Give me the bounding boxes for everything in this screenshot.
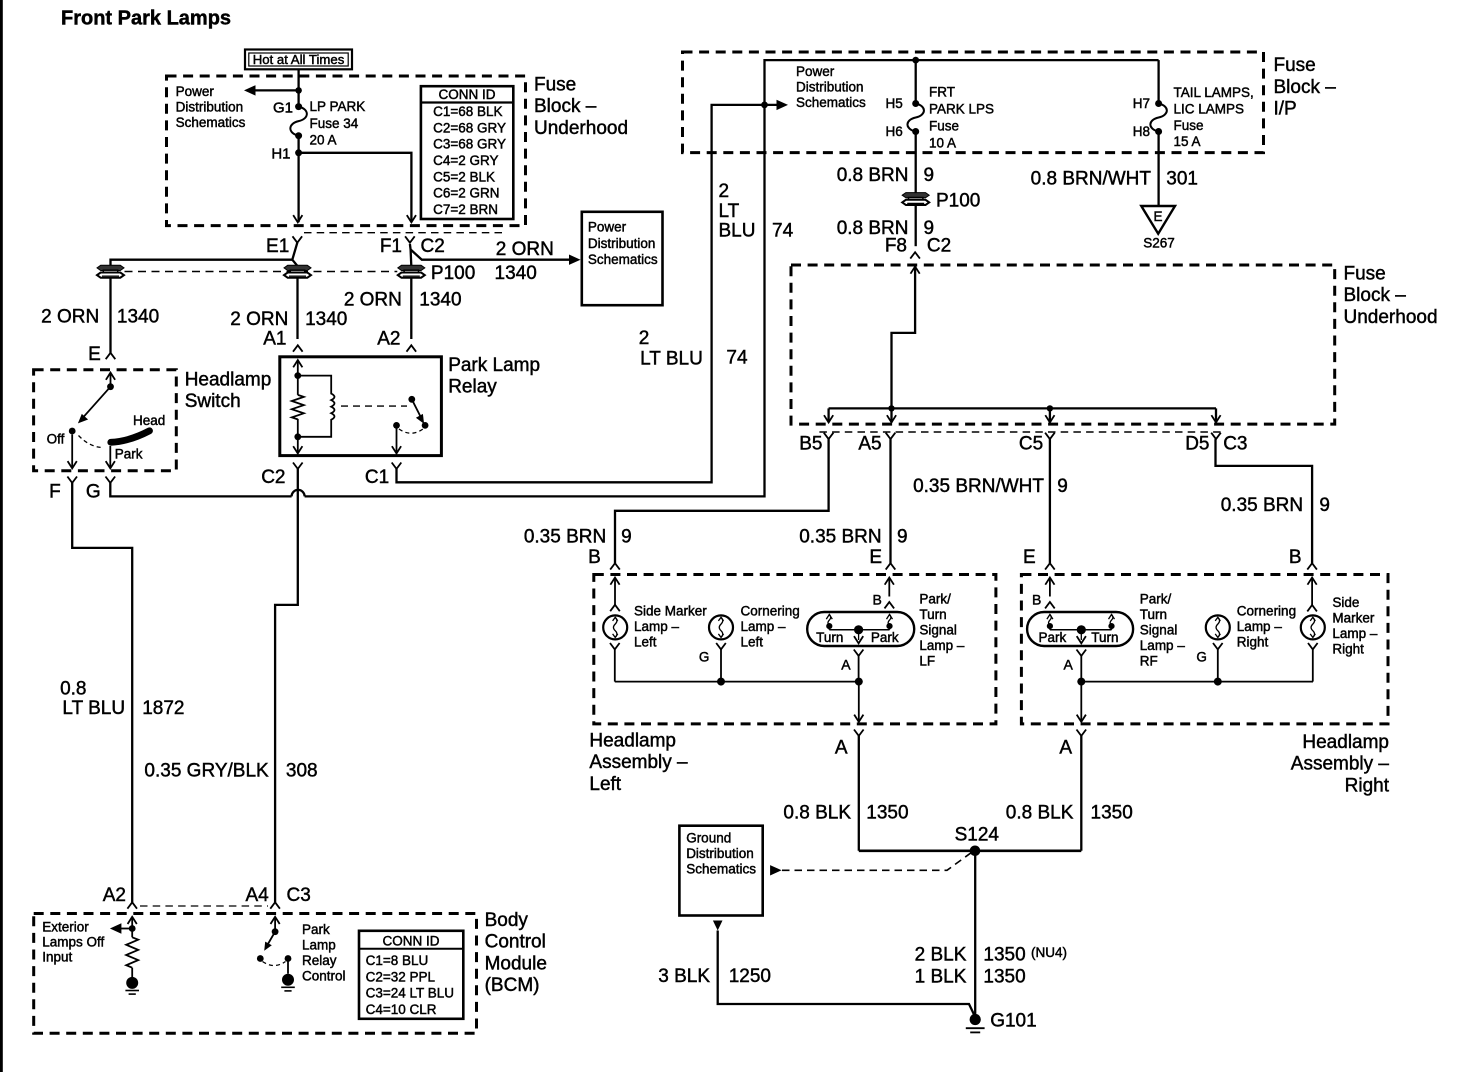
wire B inside to side marker right — [1308, 578, 1317, 606]
wire F8 inside fuse block — [892, 267, 920, 409]
svg-text:1340: 1340 — [305, 309, 347, 330]
svg-text:Park Lamp: Park Lamp — [448, 355, 540, 376]
terminal A4 C3 BCM — [270, 902, 280, 908]
svg-text:B: B — [1032, 592, 1041, 608]
terminal A2 BCM — [127, 902, 137, 908]
svg-text:LF: LF — [919, 653, 935, 668]
park turn signal lamp LF oval — [807, 612, 914, 646]
svg-text:0.35 GRY/BLK: 0.35 GRY/BLK — [144, 760, 269, 781]
svg-text:A: A — [841, 657, 851, 673]
svg-text:I/P: I/P — [1274, 99, 1297, 120]
svg-text:2: 2 — [719, 181, 730, 202]
svg-text:Distribution: Distribution — [796, 80, 864, 95]
svg-text:Turn: Turn — [1091, 630, 1118, 645]
svg-text:2 ORN: 2 ORN — [230, 309, 288, 330]
svg-text:Lamp –: Lamp – — [1237, 619, 1283, 634]
park turn signal lamp RF oval — [1027, 612, 1133, 646]
svg-text:10 A: 10 A — [929, 136, 956, 151]
svg-text:C1: C1 — [365, 467, 389, 488]
svg-text:H5: H5 — [886, 96, 903, 111]
svg-text:RF: RF — [1140, 653, 1158, 668]
svg-text:Signal: Signal — [919, 622, 957, 637]
svg-text:9: 9 — [1319, 495, 1330, 516]
svg-text:H7: H7 — [1133, 96, 1150, 111]
svg-text:Assembly –: Assembly – — [589, 752, 688, 773]
junction node fuse feed — [912, 57, 919, 64]
svg-text:Lamps Off: Lamps Off — [42, 935, 104, 950]
svg-text:3 BLK: 3 BLK — [658, 966, 710, 987]
relay switch arm — [412, 399, 424, 424]
terminal A5 — [886, 433, 896, 439]
side marker right output — [1308, 643, 1318, 682]
svg-text:A1: A1 — [263, 328, 286, 349]
svg-text:C6=2 GRN: C6=2 GRN — [433, 186, 499, 201]
park turn RF filament turn — [1109, 615, 1115, 620]
wire feed to TAIL LAMPS fuse — [1157, 60, 1159, 103]
svg-text:C5=2 BLK: C5=2 BLK — [433, 169, 495, 184]
wire E inside to park turn RF — [1045, 578, 1054, 597]
svg-text:Power: Power — [176, 84, 215, 99]
svg-text:Schematics: Schematics — [796, 95, 866, 110]
svg-text:A2: A2 — [103, 885, 126, 906]
BCM relay driver switch arm — [264, 932, 275, 951]
svg-text:E: E — [869, 547, 882, 568]
junction node — [295, 87, 302, 94]
svg-text:Underhood: Underhood — [1344, 307, 1438, 328]
svg-text:C3=24 LT BLU: C3=24 LT BLU — [366, 986, 454, 1001]
svg-text:1340: 1340 — [419, 289, 461, 310]
svg-text:1340: 1340 — [495, 263, 537, 284]
svg-text:(NU4): (NU4) — [1031, 945, 1067, 960]
svg-text:Signal: Signal — [1140, 622, 1178, 637]
cornering lamp left bulb — [709, 615, 733, 639]
svg-text:H8: H8 — [1133, 124, 1150, 139]
svg-text:LIC LAMPS: LIC LAMPS — [1174, 102, 1245, 117]
svg-text:0.8 BRN: 0.8 BRN — [837, 165, 909, 186]
svg-text:C2: C2 — [261, 467, 285, 488]
svg-text:0.35 BRN: 0.35 BRN — [799, 527, 881, 548]
svg-text:LT BLU: LT BLU — [62, 698, 125, 719]
svg-text:C1=68 BLK: C1=68 BLK — [433, 104, 502, 119]
terminal B5 — [824, 433, 834, 439]
svg-text:A: A — [1059, 738, 1072, 759]
svg-text:308: 308 — [286, 760, 318, 781]
svg-text:A: A — [835, 738, 848, 759]
splice S124 — [970, 846, 981, 857]
svg-text:0.35 BRN: 0.35 BRN — [1221, 495, 1303, 516]
svg-text:Relay: Relay — [448, 377, 497, 398]
svg-text:E1: E1 — [266, 236, 289, 257]
bus drop D5 — [1215, 408, 1217, 422]
svg-text:0.35 BRN: 0.35 BRN — [524, 527, 606, 548]
park turn LF filament park — [887, 615, 893, 620]
wire H1 down to E1 — [297, 153, 299, 223]
lamp terminal side marker left — [610, 605, 620, 611]
svg-text:9: 9 — [621, 527, 632, 548]
svg-text:Side: Side — [1332, 595, 1359, 610]
svg-text:9: 9 — [924, 165, 935, 186]
terminal B right assembly — [1307, 563, 1317, 569]
svg-text:Headlamp: Headlamp — [1302, 732, 1389, 753]
park turn LF filament turn — [826, 615, 832, 620]
connector P100 grommet right — [902, 193, 929, 198]
connector table CONN ID BCM — [359, 931, 463, 1019]
svg-text:C3: C3 — [287, 885, 311, 906]
relay switch pivot — [408, 396, 415, 403]
relay output wire to C1 — [396, 425, 398, 453]
svg-text:Off: Off — [47, 431, 65, 446]
svg-text:B: B — [873, 592, 882, 608]
BCM switch contact right — [285, 955, 292, 962]
wire E1 to left branch — [111, 243, 298, 265]
svg-text:Park: Park — [302, 922, 330, 937]
scan edge artifact left border — [0, 0, 3, 1072]
svg-text:E: E — [1023, 547, 1036, 568]
svg-text:2 BLK: 2 BLK — [915, 945, 967, 966]
BCM switch contact left — [257, 955, 264, 962]
headlamp switch box — [34, 370, 177, 471]
terminal B park turn LF — [873, 578, 895, 609]
svg-text:E: E — [1153, 209, 1162, 224]
svg-text:Right: Right — [1332, 642, 1364, 657]
body control module box — [34, 914, 477, 1034]
headlamp assembly left box — [594, 575, 996, 724]
svg-text:1872: 1872 — [142, 698, 184, 719]
schematic box Power Distribution Schematics — [582, 212, 663, 305]
svg-text:F8: F8 — [885, 235, 907, 256]
svg-text:Park: Park — [115, 446, 143, 461]
connector P100 right grommet — [398, 265, 425, 270]
terminal A left assembly — [854, 730, 864, 736]
svg-text:Right: Right — [1237, 635, 1269, 650]
svg-text:Cornering: Cornering — [741, 604, 800, 619]
wire C1 to I/P feed — [397, 105, 777, 482]
BCM pull resistor — [126, 929, 138, 978]
svg-text:Lamp: Lamp — [302, 938, 336, 953]
svg-text:Lamp –: Lamp – — [1140, 638, 1186, 653]
wire Park output — [109, 446, 111, 468]
connector face dashed line E1-F1 — [304, 232, 506, 234]
fuse block underhood right box — [791, 265, 1335, 424]
svg-text:TAIL LAMPS,: TAIL LAMPS, — [1174, 85, 1254, 100]
terminal G — [106, 477, 116, 483]
junction node A left — [855, 678, 863, 686]
schematic box Ground Distribution Schematics — [679, 826, 762, 916]
headlamp assembly right box — [1021, 575, 1388, 724]
wire ground distribution to G101 — [718, 931, 976, 1018]
svg-text:Lamp –: Lamp – — [1332, 626, 1378, 641]
wire H6 down to P100 — [915, 132, 917, 194]
svg-text:Marker: Marker — [1332, 611, 1375, 626]
terminal A1 relay — [293, 345, 303, 351]
svg-text:C4=10 CLR: C4=10 CLR — [366, 1002, 437, 1017]
svg-text:C2=32 PPL: C2=32 PPL — [366, 969, 436, 984]
ground G101 — [970, 1014, 981, 1025]
svg-text:9: 9 — [1057, 476, 1068, 497]
terminal G cornering left — [716, 643, 726, 649]
svg-text:Left: Left — [589, 774, 621, 795]
svg-text:0.8 BRN/WHT: 0.8 BRN/WHT — [1031, 168, 1152, 189]
arrow exterior lamps off input — [110, 923, 132, 933]
svg-text:9: 9 — [897, 527, 908, 548]
svg-text:Side Marker: Side Marker — [634, 604, 707, 619]
svg-text:Power: Power — [588, 220, 627, 235]
svg-text:0.8: 0.8 — [60, 679, 86, 700]
terminal C1 relay — [392, 463, 402, 469]
wire A4 inside BCM — [271, 917, 280, 935]
inline connector dashed line P100 — [125, 271, 398, 273]
svg-text:1340: 1340 — [117, 306, 159, 327]
svg-text:Body: Body — [485, 910, 529, 931]
wire E down to headlamp switch — [109, 278, 111, 353]
svg-text:Distribution: Distribution — [588, 236, 656, 251]
relay actuation dashed line — [341, 405, 407, 407]
wire F to BCM A2 — [72, 483, 132, 902]
arrow to power distribution schematics I/P — [777, 100, 789, 110]
svg-text:B: B — [1289, 547, 1302, 568]
svg-text:1350: 1350 — [866, 803, 908, 824]
svg-text:Lamp –: Lamp – — [919, 638, 965, 653]
switch common wire — [106, 373, 115, 391]
bus drop B5 — [827, 408, 829, 422]
arrow into connector F1 — [407, 215, 416, 222]
svg-text:P100: P100 — [431, 263, 475, 284]
terminal D5 C3 — [1211, 433, 1221, 439]
ground S267 triangle — [1141, 206, 1175, 234]
svg-text:C1=8 BLU: C1=8 BLU — [366, 953, 429, 968]
junction node I/P feed — [761, 102, 768, 109]
svg-text:74: 74 — [772, 221, 794, 242]
svg-text:B: B — [588, 547, 601, 568]
svg-text:A2: A2 — [377, 328, 400, 349]
svg-text:Schematics: Schematics — [588, 252, 658, 267]
svg-text:CONN ID: CONN ID — [383, 934, 440, 949]
junction node C5 — [1047, 405, 1053, 411]
svg-text:1350: 1350 — [983, 967, 1025, 988]
connector P100 left grommet — [97, 265, 124, 270]
connector P100 center grommet — [284, 265, 311, 270]
wire A exit left assembly — [854, 682, 863, 722]
svg-text:Turn: Turn — [919, 607, 946, 622]
wire C2 to Power Distribution Schematics — [410, 244, 570, 260]
wire A5 to park turn left — [889, 439, 891, 563]
svg-text:Block –: Block – — [1274, 77, 1337, 98]
arrow out of ground distribution box — [713, 921, 723, 931]
svg-text:Input: Input — [42, 950, 72, 965]
terminal E headlamp switch — [106, 353, 116, 359]
svg-text:Park: Park — [1039, 630, 1067, 645]
svg-text:Park/: Park/ — [919, 591, 951, 606]
svg-text:Fuse: Fuse — [1174, 118, 1204, 133]
terminal A park turn RF — [1063, 650, 1086, 682]
svg-text:S124: S124 — [955, 824, 1000, 845]
junction node A2 input — [129, 925, 136, 932]
relay coil output wire to C2 — [297, 437, 299, 454]
svg-text:Assembly –: Assembly – — [1291, 754, 1390, 775]
svg-text:1 BLK: 1 BLK — [915, 967, 967, 988]
park lamp relay box — [280, 357, 442, 456]
svg-text:E: E — [88, 344, 101, 365]
svg-text:CONN ID: CONN ID — [439, 87, 496, 102]
wire A left to S124 — [858, 736, 860, 851]
wire from Hot at All Times — [297, 69, 299, 107]
terminal A right assembly — [1077, 730, 1087, 736]
svg-text:1250: 1250 — [729, 966, 771, 987]
svg-text:Fuse: Fuse — [1344, 264, 1386, 285]
bus drop A5 — [890, 408, 892, 422]
connector face dashed line A2-A4 — [140, 905, 268, 907]
svg-text:LP PARK: LP PARK — [310, 99, 366, 114]
wire E1 down — [292, 260, 297, 339]
svg-text:Block –: Block – — [534, 96, 597, 117]
svg-text:Exterior: Exterior — [42, 920, 89, 935]
terminal F8 C2 — [910, 252, 920, 258]
terminal E left assembly — [886, 563, 896, 569]
park turn RF common — [1050, 625, 1112, 643]
park turn LF common — [829, 625, 889, 643]
svg-text:2 ORN: 2 ORN — [344, 289, 402, 310]
svg-text:C5: C5 — [1019, 434, 1043, 455]
svg-text:BLU: BLU — [719, 221, 756, 242]
svg-text:Turn: Turn — [816, 630, 843, 645]
svg-text:PARK LPS: PARK LPS — [929, 102, 994, 117]
svg-text:C3=68 GRY: C3=68 GRY — [433, 137, 506, 152]
svg-text:Fuse: Fuse — [1274, 55, 1316, 76]
svg-text:G1: G1 — [273, 99, 293, 116]
wire H8 down to S267 — [1157, 132, 1159, 207]
wire F1 down — [409, 250, 412, 340]
side marker lamp left bulb — [603, 615, 627, 639]
svg-text:0.35 BRN/WHT: 0.35 BRN/WHT — [913, 476, 1044, 497]
terminal A park turn LF — [841, 650, 863, 682]
cornering lamp right bulb — [1206, 615, 1230, 639]
svg-text:Underhood: Underhood — [534, 118, 628, 139]
svg-text:Control: Control — [302, 969, 346, 984]
svg-text:Block –: Block – — [1344, 285, 1407, 306]
terminal G cornering right — [1196, 643, 1222, 682]
svg-text:20 A: 20 A — [310, 133, 337, 148]
fuse TAIL LAMPS LIC LAMPS 15 A — [1155, 100, 1162, 107]
svg-text:C3: C3 — [1223, 434, 1247, 455]
fuse FRT PARK LPS 10 A — [912, 100, 919, 107]
svg-text:0.8 BLK: 0.8 BLK — [1006, 803, 1074, 824]
svg-text:Schematics: Schematics — [686, 862, 756, 877]
relay coil input wire A1 — [293, 360, 302, 379]
wire C5 to park turn right — [1049, 439, 1051, 563]
wire C2 to BCM A4 — [275, 469, 298, 902]
svg-text:(BCM): (BCM) — [485, 975, 540, 996]
wire P100 to F8 — [915, 205, 917, 247]
junction node cornering right — [1214, 678, 1222, 686]
svg-text:G101: G101 — [990, 1011, 1036, 1032]
wire B inside to side marker lamp — [610, 578, 619, 605]
svg-text:LT: LT — [719, 201, 740, 222]
terminal A2 relay — [407, 345, 417, 351]
side marker left output — [610, 643, 620, 649]
connector face dashed line B5-C3 — [819, 431, 1221, 433]
svg-text:H6: H6 — [886, 124, 903, 139]
svg-text:LT BLU: LT BLU — [640, 348, 703, 369]
label box Hot at All Times — [245, 50, 352, 70]
wire B5 to side marker left — [615, 439, 829, 563]
wire H1 branch to F1 — [299, 153, 412, 223]
ground bus left assembly — [615, 681, 859, 683]
wire G continued — [305, 60, 1159, 496]
wire A2 inside BCM — [128, 917, 137, 929]
switch arm to Off — [78, 387, 111, 424]
terminal B left assembly — [610, 563, 620, 569]
svg-text:P100: P100 — [936, 191, 980, 212]
svg-text:Turn: Turn — [1140, 607, 1167, 622]
svg-text:C2: C2 — [421, 236, 445, 257]
wire S124 to G101 — [974, 851, 976, 1020]
ground BCM switch — [282, 974, 294, 986]
fuse Fuse 34 LP PARK 20 A — [290, 103, 307, 156]
svg-text:2: 2 — [639, 328, 650, 349]
fuse block I/P box — [683, 52, 1264, 153]
svg-text:Switch: Switch — [185, 391, 241, 412]
terminal C2 relay — [293, 463, 303, 469]
terminal E right assembly — [1045, 563, 1055, 569]
wire feed to FRT PARK LPS fuse — [915, 60, 917, 103]
relay contact dashed arc — [399, 429, 423, 433]
svg-text:Park: Park — [871, 630, 899, 645]
BCM contact dashed arc — [263, 962, 286, 966]
arrow to Power Distribution Schematics — [244, 85, 299, 95]
svg-text:301: 301 — [1166, 168, 1198, 189]
svg-text:Lamp –: Lamp – — [741, 619, 787, 634]
svg-text:Module: Module — [485, 953, 547, 974]
distribution bus — [829, 407, 1216, 409]
terminal B park turn RF — [1032, 592, 1055, 609]
svg-text:2 ORN: 2 ORN — [41, 306, 99, 327]
svg-text:Left: Left — [741, 635, 764, 650]
terminal F — [67, 477, 77, 483]
wire hop over C2 wire — [292, 490, 305, 496]
wire A exit right assembly — [1077, 682, 1086, 722]
relay output contact — [393, 422, 400, 429]
side marker lamp right bulb — [1301, 615, 1325, 639]
svg-text:Fuse 34: Fuse 34 — [310, 116, 359, 131]
junction node cornering left — [717, 678, 725, 686]
svg-text:1350: 1350 — [983, 945, 1025, 966]
svg-text:Headlamp: Headlamp — [589, 730, 676, 751]
wire A right to S124 — [1080, 736, 1082, 851]
svg-text:G: G — [1196, 649, 1207, 664]
svg-text:F1: F1 — [380, 236, 402, 257]
relay coil — [298, 376, 335, 437]
ground BCM resistor — [126, 977, 138, 989]
relay resistor — [292, 376, 304, 441]
svg-text:Hot at All Times: Hot at All Times — [253, 52, 345, 67]
switch travel dashed arc — [79, 436, 104, 448]
svg-text:Control: Control — [485, 932, 546, 953]
svg-text:S267: S267 — [1143, 235, 1175, 250]
terminal C5 — [1045, 433, 1055, 439]
ground bus right assembly — [1081, 681, 1313, 683]
connector table CONN ID underhood — [421, 86, 513, 219]
junction node A right — [1077, 678, 1085, 686]
svg-text:1350: 1350 — [1091, 803, 1133, 824]
wire BCM switch to ground — [287, 959, 289, 974]
svg-text:FRT: FRT — [929, 85, 955, 100]
arrow into connector E1 — [293, 215, 302, 222]
svg-text:G: G — [86, 481, 101, 502]
svg-text:Headlamp: Headlamp — [185, 369, 272, 390]
fuse block underhood box — [167, 76, 526, 226]
svg-text:2 ORN: 2 ORN — [496, 239, 554, 260]
svg-text:B5: B5 — [799, 434, 822, 455]
